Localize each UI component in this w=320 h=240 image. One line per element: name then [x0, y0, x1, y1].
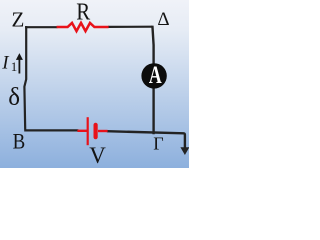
svg-text:1: 1 — [11, 59, 17, 74]
svg-text:Γ: Γ — [153, 133, 163, 153]
battery V: left red lead — [77, 130, 87, 132]
svg-text:Z: Z — [12, 8, 25, 32]
svg-text:R: R — [76, 0, 90, 25]
battery V: long thin plate — [87, 117, 89, 145]
wire bottom-right (battery to Gamma and right edge) — [107, 131, 185, 148]
svg-text:Δ: Δ — [157, 9, 169, 30]
resistor R (red zigzag) — [57, 23, 109, 31]
wire top right segment — [108, 26, 152, 28]
wire right (Delta down through ammeter to junction) — [152, 26, 153, 135]
svg-text:B: B — [13, 130, 26, 154]
battery V: right red lead — [98, 130, 108, 132]
wire bottom-left (B to battery) — [24, 129, 78, 131]
svg-text:A: A — [149, 61, 162, 89]
battery V: short thick plate — [94, 123, 98, 140]
svg-text:δ: δ — [8, 84, 20, 111]
current arrow I1 — [18, 59, 20, 74]
wire top (Z to Delta) — [25, 26, 57, 28]
svg-text:I: I — [1, 52, 10, 73]
arrowhead down at right edge — [180, 147, 189, 155]
svg-text:V: V — [89, 143, 106, 168]
ammeter U1 circle — [141, 63, 166, 88]
wire left (Z down to B, with jog at delta) — [24, 26, 26, 130]
